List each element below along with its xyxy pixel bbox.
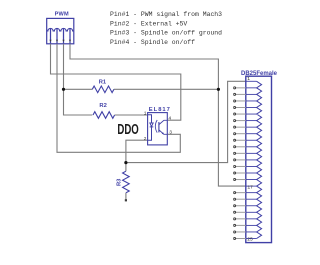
X1 pin row 19 [246,198,257,200]
X1 pin row 24 [246,231,257,233]
X1 pin row 21 [246,211,257,213]
svg-text:Pin#4 - Spindle on/off: Pin#4 - Spindle on/off [110,39,195,46]
connector J1 PWM header [47,18,74,43]
X1 pin row 18 [246,192,257,194]
svg-text:25: 25 [247,237,253,243]
X1 pin row 3 [246,93,257,95]
X1 pin row 4 [246,100,257,102]
wire net N4: PWM pin4 top route to DB25 pin17 [70,44,246,186]
X1 pin row 22 [246,218,257,220]
X1 pin row 25 [246,238,257,240]
X1 pin row 9 [246,133,257,135]
U1 phototransistor lens arc [155,120,157,133]
resistor R3 vertical [123,171,130,193]
X1 pin rows [233,81,262,240]
R3 open end square [125,199,127,201]
optocoupler U1 EL817 body [148,113,168,145]
junction dot B at R1 right [217,88,220,91]
resistor R2 [93,112,115,119]
wire R1 left lead from junction [64,88,93,90]
X1 pin row 14 [246,165,257,167]
svg-text:R3: R3 [116,178,122,186]
svg-text:PWM: PWM [55,12,69,18]
junction dot C at R3 top [124,161,127,164]
connector J1 contact arcs [47,28,74,31]
X1 pin row 5 [246,107,257,109]
svg-text:2: 2 [144,137,147,142]
X1 pin row 7 [246,120,257,122]
X1 pin row 16 [246,179,257,181]
svg-text:3: 3 [169,130,172,136]
U1 LED anode lead [148,115,152,123]
svg-text:R2: R2 [99,103,106,109]
X1 pin row 23 [246,224,257,226]
U1 LED triangle [150,123,153,127]
svg-text:Pin#2 - External +5V: Pin#2 - External +5V [110,20,187,27]
svg-text:1: 1 [247,76,250,82]
wire R2 right lead to opto pin1 [115,114,148,116]
X1 pin row 20 [246,205,257,207]
X1 pin row 1 [246,80,257,82]
wire net N2: PWM pin2 to opto pin3 [57,44,180,153]
wire R1 right lead to junction B [114,88,218,90]
X1 pin row 11 [246,146,257,148]
X1 serrated contact edge [257,81,262,238]
resistor R1 [92,86,114,93]
U1 phototransistor base bar [158,122,160,132]
svg-text:Pin#1 - PWM signal from Mach3: Pin#1 - PWM signal from Mach3 [110,11,222,18]
U1 LED cathode lead [148,127,152,140]
svg-text:17: 17 [247,184,253,190]
X1 pin row 6 [246,113,257,115]
svg-text:Pin#3 - Spindle on/off ground: Pin#3 - Spindle on/off ground [110,30,222,37]
junction dot A at R1 left [62,88,65,91]
svg-text:R1: R1 [99,79,107,85]
wire net N3: PWM pin3 down to junction and R2 [64,44,93,115]
svg-text:DDO: DDO [117,121,139,138]
wire net N5: opto pin2 to R3 and DB25 pin1 [126,81,246,200]
X1 pin row 13 [246,159,257,161]
X1 pin row 15 [246,172,257,174]
U1 collector [159,120,167,124]
svg-text:EL817: EL817 [149,107,171,113]
X1 pin row 17 [246,185,257,187]
X1 pin row 10 [246,139,257,141]
U1 LED cathode bar [150,126,154,128]
connector J1 pin lines [51,29,71,44]
X1 pin row 8 [246,126,257,128]
X1 pin row 12 [246,152,257,154]
svg-text:1: 1 [144,112,147,117]
annotation text block [110,11,222,46]
wire net N1: PWM pin1 to opto pin4 [51,44,181,120]
U1 emitter with arrow [159,130,167,134]
connector X1 DB25Female body [246,76,272,242]
svg-text:4: 4 [168,116,171,122]
connector J1 pin arrows [49,40,71,42]
X1 pin row 2 [246,87,257,89]
